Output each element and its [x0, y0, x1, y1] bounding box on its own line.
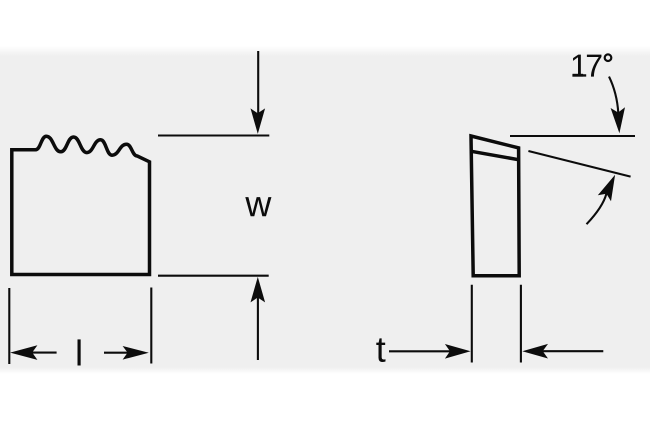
side view bevel line [471, 151, 520, 160]
dimension l: right extension line [150, 288, 152, 364]
label 17 degrees [572, 55, 586, 77]
dimension t: left extension line [471, 285, 473, 363]
angle leader curve lower [587, 194, 607, 225]
dimension w: top extension line [158, 134, 269, 136]
angle reference horizontal line [510, 135, 635, 137]
angle leader curve upper [609, 77, 618, 113]
angle leader lower arrowhead [598, 175, 615, 202]
dimension l: left arrowhead [10, 345, 37, 360]
dimension l: left arrow shaft [32, 352, 57, 354]
label t [376, 338, 385, 362]
gray drawing panel background [0, 46, 650, 374]
dimension l: right arrowhead [123, 346, 149, 360]
angle leader upper arrowhead [611, 107, 625, 133]
label 17 degrees foot serif of digit 1 [573, 74, 584, 77]
dimension t: right extension line [520, 285, 522, 363]
dimension l: left extension line [8, 288, 10, 364]
front view outline with serrated top edge [12, 136, 150, 274]
label w [245, 197, 271, 216]
dimension t: left arrowhead [445, 344, 471, 359]
dimension t: right arrowhead [522, 344, 548, 359]
dimension w: up arrowhead [251, 277, 266, 303]
angle slanted line [528, 151, 630, 177]
side view outline [471, 136, 519, 276]
dimension t: right arrow shaft [542, 350, 603, 352]
dimension w: up arrow shaft [257, 296, 259, 360]
dimension w: down arrowhead [251, 108, 266, 133]
dimension t: left arrow shaft [389, 350, 451, 352]
dimension w: down arrow shaft [257, 51, 259, 114]
dimension l: right arrow shaft [104, 352, 128, 354]
dimension w: bottom extension line [158, 275, 269, 277]
label l [78, 339, 81, 365]
